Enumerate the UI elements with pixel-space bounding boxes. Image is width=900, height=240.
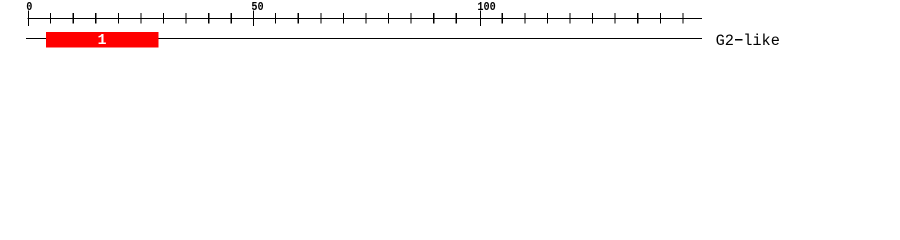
motif box 1: [46, 32, 159, 48]
ruler line: [28, 18, 703, 20]
major tick 0: [27, 11, 29, 27]
svg-text:like: like: [743, 32, 780, 50]
svg-text:G2: G2: [716, 32, 734, 50]
svg-text:0: 0: [26, 1, 32, 14]
family label dash: [735, 39, 743, 41]
backbone line: [26, 38, 702, 40]
svg-text:1: 1: [97, 32, 106, 49]
major tick 50: [252, 11, 254, 27]
major tick 100: [479, 11, 481, 27]
svg-text:100: 100: [477, 1, 496, 14]
svg-text:50: 50: [251, 1, 264, 14]
minor ticks: [51, 13, 683, 23]
